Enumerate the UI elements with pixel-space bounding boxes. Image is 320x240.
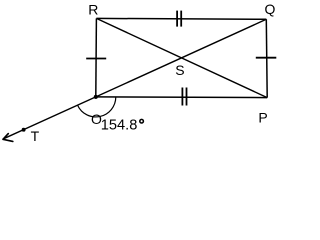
wire diagonal QO [96,19,266,97]
wire diagonal RP [96,18,267,97]
wire ray OT [3,97,95,139]
svg-text:Q: Q [265,1,276,17]
arrowhead of ray [3,134,13,142]
svg-text:154.8: 154.8 [101,118,138,134]
degree symbol of angle value [140,119,144,123]
angle arc at O (154.8 degrees) [78,97,116,117]
wire top edge RQ [96,17,266,20]
node O (vertex dot) [94,95,98,99]
wire right edge QP [265,19,268,97]
svg-text:T: T [31,128,40,144]
svg-text:S: S [175,62,184,78]
tick mark single, right edge [256,57,276,59]
tick mark double, bottom edge [182,88,186,106]
wire left edge RO [95,18,98,97]
node T (dot) [22,128,26,132]
svg-text:P: P [258,109,267,125]
svg-text:R: R [88,1,98,17]
wire bottom edge OP [96,96,267,99]
tick mark double, top edge [177,11,181,27]
tick mark single, left edge [86,58,106,60]
